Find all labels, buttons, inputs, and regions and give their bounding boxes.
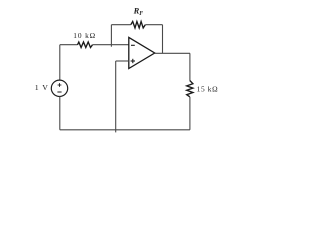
- svg-text:RF: RF: [133, 6, 144, 18]
- wire: inverting input wire: [93, 44, 129, 46]
- wire: input wire left of 10k resistor: [60, 44, 78, 46]
- wire: feedback right vertical: [162, 25, 164, 54]
- wire: left vertical below source: [59, 97, 61, 130]
- resistor Rf: [131, 22, 146, 28]
- wire: non-inverting input vertical down to ground rail: [115, 61, 117, 132]
- wire: non-inverting input horizontal: [116, 60, 129, 62]
- op-amp minus sign: [131, 44, 135, 46]
- voltage source V1: [51, 80, 67, 96]
- wire: right vertical above 15k: [189, 53, 191, 80]
- wire: left vertical above source: [59, 45, 61, 80]
- wire: bottom rail: [60, 129, 190, 131]
- wire: right vertical below 15k: [189, 97, 191, 130]
- svg-text:10 kΩ: 10 kΩ: [73, 31, 96, 40]
- voltage source plus sign: [58, 83, 62, 87]
- wire: top feedback left segment: [111, 24, 130, 26]
- svg-text:1V: 1V: [35, 83, 48, 92]
- wire: feedback left vertical: [110, 25, 112, 47]
- voltage source minus sign: [57, 91, 61, 93]
- op-amp plus sign: [131, 59, 135, 63]
- wire: top feedback right segment: [145, 24, 162, 26]
- resistor R1 10k: [78, 42, 93, 48]
- svg-text:15 kΩ: 15 kΩ: [197, 85, 219, 94]
- op-amp U1: [129, 37, 155, 68]
- resistor R2 15k: [187, 81, 193, 97]
- wire: output horizontal: [155, 52, 190, 54]
